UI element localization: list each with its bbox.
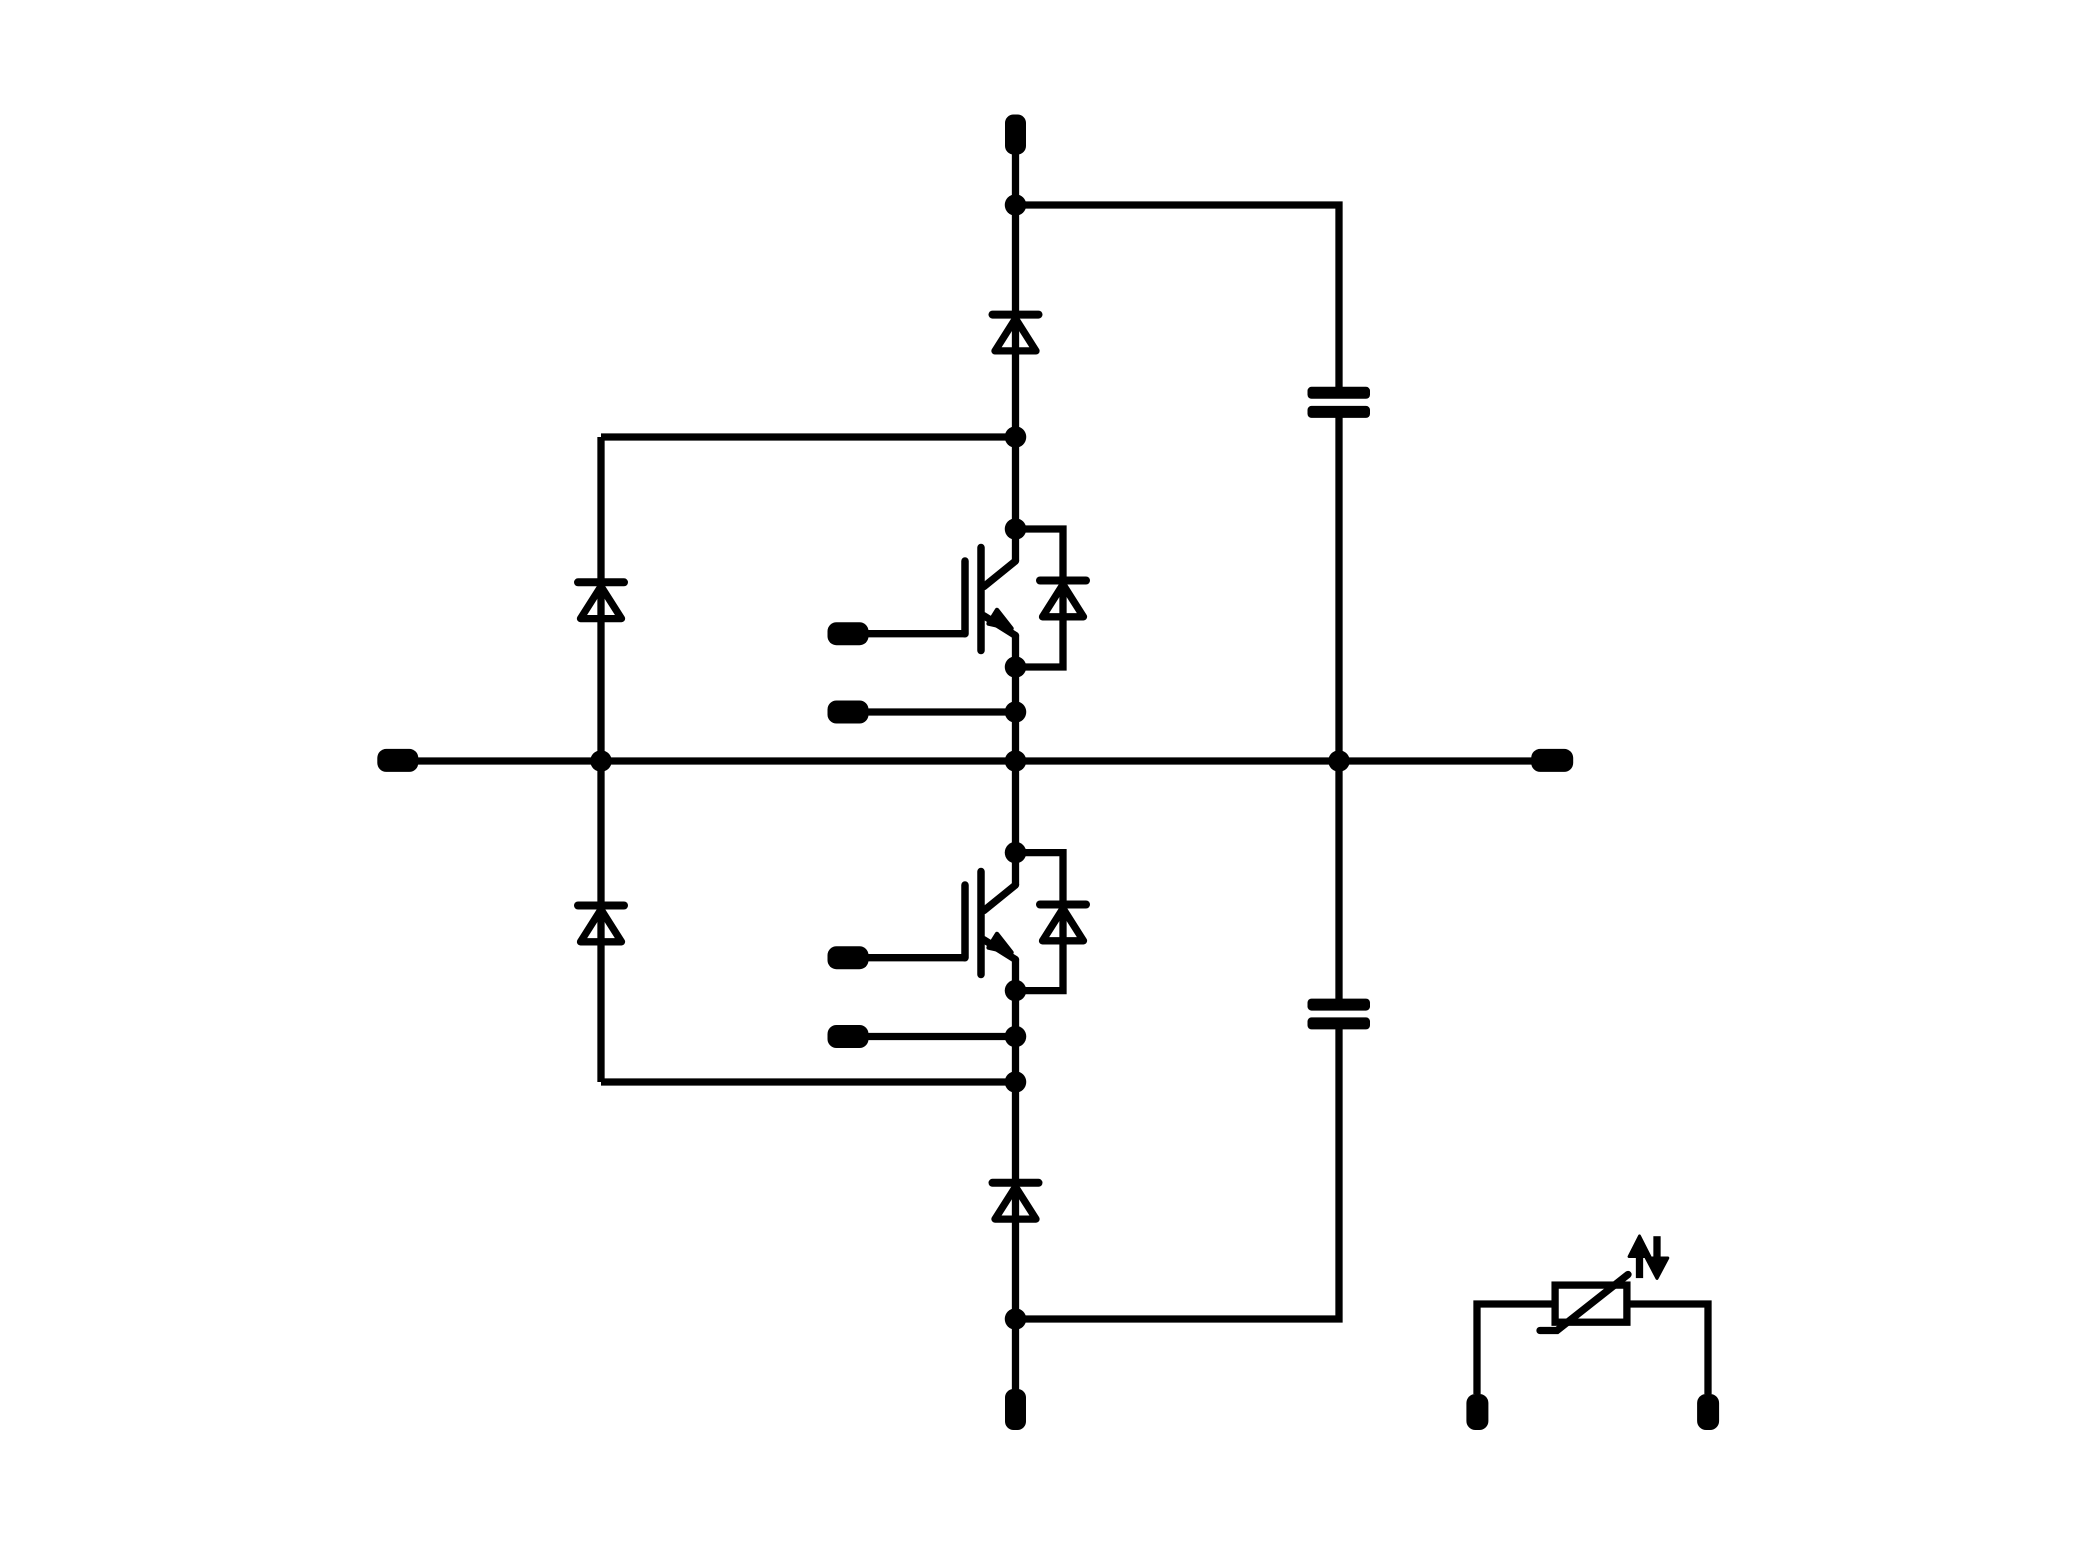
node auxiliary emitter 1 — [1005, 701, 1027, 723]
transistor Q1 emitter arrow — [989, 610, 1012, 629]
terminal pin T1 (thermistor left) — [1466, 1394, 1488, 1430]
diode D4 bar (antiparallel Q2) — [1036, 901, 1090, 909]
capacitor C2 bottom plate — [1308, 1017, 1371, 1029]
node left branch center — [590, 750, 612, 772]
node emitter Q2 — [1005, 980, 1027, 1002]
diode D3 triangle — [995, 1187, 1036, 1219]
thermistor R1 diagonal stroke — [1540, 1275, 1628, 1331]
diode D3 bar (main rail bottom) — [989, 1179, 1043, 1187]
diode D2 triangle — [1043, 585, 1084, 617]
wire NTC right lead — [1630, 1304, 1708, 1394]
thermistor arrow down — [1653, 1236, 1660, 1262]
transistor Q2 emitter diagonal — [984, 940, 1016, 960]
diode D5 bar (left branch upper) — [574, 578, 628, 586]
diode D5 triangle — [581, 586, 622, 618]
transistor Q1 body bar — [977, 548, 985, 651]
capacitor C2 top plate — [1308, 999, 1371, 1011]
terminal pin 2 (bottom, emitter E) — [1005, 1389, 1026, 1430]
wire left branch vertical — [597, 437, 604, 1082]
diode D1 triangle — [995, 319, 1036, 351]
capacitor C1 bottom plate — [1308, 406, 1371, 418]
node auxiliary emitter 2 — [1005, 1026, 1027, 1048]
transistor Q2 body bar — [977, 872, 985, 975]
wire main rail middle segment — [1012, 636, 1019, 886]
node right branch center — [1328, 750, 1350, 772]
diode D2 bar (antiparallel Q1) — [1036, 577, 1090, 585]
diode D6 triangle — [581, 910, 622, 942]
wire top link to right branch — [1016, 205, 1340, 393]
terminal pin G1 (gate 1) — [828, 622, 869, 645]
terminal pin 1 (top, collector C) — [1005, 115, 1026, 155]
wire gate G1 — [848, 630, 965, 637]
node top T-junction — [1005, 194, 1027, 216]
node left-branch bottom junction — [1005, 1071, 1027, 1093]
wire main rail lower segment — [1012, 960, 1019, 1393]
terminal pin AC left — [377, 749, 418, 772]
diode D4 triangle — [1043, 909, 1084, 941]
terminal pin E1aux (auxiliary emitter 1) — [828, 701, 869, 724]
capacitor C1 top plate — [1308, 387, 1371, 399]
transistor Q1 emitter diagonal — [984, 616, 1016, 636]
diode D6 bar (left branch lower) — [574, 902, 628, 910]
node collector Q2 — [1005, 842, 1027, 864]
node emitter Q1 — [1005, 656, 1027, 678]
terminal pin T2 (thermistor right) — [1697, 1394, 1719, 1430]
thermistor arrow up — [1636, 1252, 1643, 1278]
terminal pin G2 (gate 2) — [828, 946, 869, 969]
node main rail center — [1005, 750, 1027, 772]
node collector Q1 — [1005, 518, 1027, 540]
wire main rail top segment — [1012, 150, 1019, 561]
wire freewheel diode branch Q1 — [1016, 529, 1064, 667]
wire left branch top link — [601, 433, 1016, 440]
wire auxiliary emitter 2 — [848, 1033, 1016, 1040]
transistor Q1 collector diagonal — [984, 561, 1016, 587]
thermistor R1 (NTC) body — [1555, 1285, 1627, 1322]
wire freewheel diode branch Q2 — [1016, 853, 1064, 991]
node left-branch top junction — [1005, 426, 1027, 448]
wire NTC left lead — [1477, 1304, 1555, 1394]
transistor Q2 collector diagonal — [984, 885, 1016, 911]
wire bottom link to right branch — [1016, 1023, 1340, 1319]
diode D1 bar (cathode) — [989, 311, 1043, 319]
terminal pin E2aux (auxiliary emitter 2) — [828, 1025, 869, 1048]
wire right branch between capacitors — [1335, 412, 1342, 1005]
transistor Q1 gate bar — [961, 561, 969, 634]
wire auxiliary emitter 1 — [848, 708, 1016, 715]
transistor Q2 gate bar — [961, 885, 969, 958]
wire left branch bottom link — [601, 1078, 1016, 1085]
wire AC output center line — [418, 757, 1535, 764]
terminal pin AC right — [1531, 749, 1573, 772]
transistor Q2 emitter arrow — [989, 934, 1012, 953]
node bottom T-junction — [1005, 1308, 1027, 1330]
wire gate G2 — [848, 954, 965, 961]
